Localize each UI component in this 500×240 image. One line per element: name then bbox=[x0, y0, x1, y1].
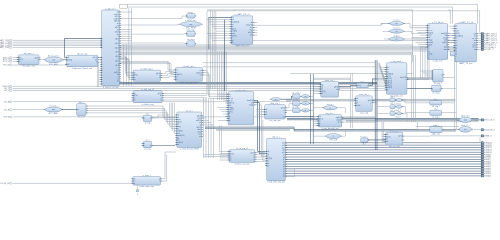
svg-text:PULSE_IN: PULSE_IN bbox=[0, 183, 10, 185]
svg-text:oe: oe bbox=[199, 136, 201, 138]
wire net o_out bbox=[370, 79, 433, 86]
wire fan e_left_more bbox=[170, 103, 176, 134]
svg-text:sel[2:0]: sel[2:0] bbox=[387, 87, 393, 89]
svg-text:cs: cs bbox=[117, 79, 119, 81]
port LED0 bbox=[481, 175, 491, 178]
svg-text:clk: clk bbox=[19, 57, 21, 59]
wire net m_f1 bbox=[254, 101, 266, 152]
wire net i_s2 bbox=[285, 104, 292, 108]
wire net a_b_join bbox=[448, 33, 454, 42]
svg-text:u: u bbox=[118, 50, 119, 52]
svg-text:ce: ce bbox=[386, 139, 388, 141]
wire net q_out bbox=[403, 135, 481, 137]
svg-text:e: e bbox=[161, 97, 162, 99]
svg-text:sh: sh bbox=[267, 163, 269, 165]
svg-text:u_UART_TX_ctl: u_UART_TX_ctl bbox=[458, 21, 473, 24]
svg-text:s1_reg_i: s1_reg_i bbox=[432, 117, 440, 119]
port BTN_D bbox=[3, 61, 12, 64]
svg-text:done: done bbox=[197, 129, 201, 131]
wire stubs g_rpins bbox=[253, 23, 258, 35]
wire net a2_out bbox=[442, 102, 455, 104]
module U1 uart_rx_top bbox=[100, 7, 121, 86]
wire net d_h_long bbox=[202, 63, 375, 67]
svg-text:d[1:0]: d[1:0] bbox=[356, 105, 360, 107]
module M2 shadow_reg bbox=[228, 148, 257, 166]
wire bus band_mid1 bbox=[120, 44, 456, 51]
module P scan_cnt bbox=[354, 93, 374, 114]
wire net ov_feed bbox=[382, 23, 390, 39]
wire vert q_feed bbox=[382, 122, 384, 142]
svg-text:dp: dp bbox=[319, 123, 321, 125]
port UART_DSR_O bbox=[481, 41, 498, 44]
svg-text:lt_cmp_i: lt_cmp_i bbox=[293, 98, 301, 101]
wire comb a_lpins bbox=[411, 26, 426, 48]
svg-text:mode[1:0]: mode[1:0] bbox=[177, 135, 184, 137]
wire loop f_feedback bbox=[285, 169, 294, 177]
wire net u1_g1 bbox=[120, 16, 187, 19]
svg-text:q7: q7 bbox=[283, 159, 285, 161]
wire bus band_mid2 dark bbox=[120, 82, 378, 84]
svg-text:en_i: en_i bbox=[146, 140, 150, 142]
svg-text:dn: dn bbox=[117, 81, 119, 83]
wire net ovi_out bbox=[281, 96, 293, 99]
port LED11 bbox=[481, 149, 492, 152]
wire net d3_u1 bbox=[98, 58, 102, 60]
svg-text:d: d bbox=[144, 143, 145, 145]
svg-text:tx_fifo_inst: tx_fifo_inst bbox=[433, 60, 443, 63]
svg-text:sel_or_i: sel_or_i bbox=[327, 104, 335, 106]
wire bus band3 bbox=[286, 99, 455, 101]
svg-text:we: we bbox=[387, 71, 389, 73]
wire net e_bot_m2 bbox=[204, 155, 230, 157]
wire vert ab_mid bbox=[455, 50, 457, 130]
wire net misc_73 bbox=[290, 73, 413, 75]
svg-text:scan_cnt_r: scan_cnt_r bbox=[359, 93, 369, 96]
svg-text:q2[7:0]: q2[7:0] bbox=[387, 83, 392, 85]
wire comb b_lpins bbox=[449, 26, 454, 43]
svg-text:clk: clk bbox=[265, 109, 267, 111]
svg-text:clk: clk bbox=[387, 67, 389, 69]
svg-text:led_reg_inst: led_reg_inst bbox=[389, 145, 400, 148]
module Q led_reg bbox=[384, 130, 404, 149]
svg-text:pwm_cnt_r: pwm_cnt_r bbox=[325, 79, 335, 82]
svg-text:clk: clk bbox=[456, 26, 458, 28]
svg-text:clk: clk bbox=[321, 84, 323, 86]
module G1 brg bbox=[186, 12, 197, 18]
port EN_B bbox=[4, 109, 12, 112]
svg-text:eq_cmp_i: eq_cmp_i bbox=[292, 92, 301, 94]
svg-text:SW_2: SW_2 bbox=[4, 90, 9, 92]
module D3 debounce bbox=[65, 53, 99, 70]
svg-text:busy: busy bbox=[177, 126, 180, 128]
module C2 rx_buf_reg bbox=[132, 89, 164, 106]
wire vert n_right bbox=[351, 74, 353, 129]
svg-text:inv: inv bbox=[396, 31, 398, 33]
svg-text:sh: sh bbox=[229, 116, 231, 118]
wire net h_out bbox=[407, 77, 455, 79]
port LED3 bbox=[481, 168, 491, 171]
svg-text:BTN_D: BTN_D bbox=[3, 61, 10, 63]
wire net l_up2 bbox=[161, 155, 167, 182]
wire comb v1_lpins bbox=[421, 71, 433, 79]
svg-text:ld: ld bbox=[428, 58, 429, 60]
wire net r1_a2 bbox=[402, 100, 430, 103]
port LED12 bbox=[481, 146, 492, 149]
svg-text:baud[15:0]: baud[15:0] bbox=[232, 22, 240, 24]
svg-text:inv: inv bbox=[396, 39, 398, 41]
svg-text:q13: q13 bbox=[282, 145, 285, 147]
port UART_RXD bbox=[0, 39, 12, 42]
svg-text:q11: q11 bbox=[282, 150, 285, 152]
svg-text:btn_sync_r: btn_sync_r bbox=[24, 52, 34, 55]
svg-text:d: d bbox=[134, 181, 135, 183]
svg-text:inv: inv bbox=[396, 23, 398, 25]
wire comb g_lpins bbox=[207, 20, 230, 41]
wire net ovl_t3 bbox=[62, 109, 75, 111]
svg-text:d[15:0]: d[15:0] bbox=[67, 59, 72, 61]
svg-text:t1_reg_i: t1_reg_i bbox=[433, 92, 441, 95]
svg-text:d[2:0]: d[2:0] bbox=[19, 59, 23, 61]
port LED6 bbox=[481, 161, 491, 164]
svg-text:v[3:0]: v[3:0] bbox=[115, 38, 119, 40]
wire fan h_lpins bbox=[377, 63, 387, 92]
svg-text:e: e bbox=[253, 159, 254, 161]
svg-text:q: q bbox=[159, 178, 160, 180]
wire bus band4b bbox=[346, 121, 479, 122]
svg-text:s1_r: s1_r bbox=[434, 109, 438, 111]
svg-text:done: done bbox=[472, 47, 476, 49]
wire net d2_d3 bbox=[62, 59, 66, 61]
svg-text:0: 0 bbox=[137, 194, 138, 196]
svg-text:u_cmd_Parse2_FSM: u_cmd_Parse2_FSM bbox=[180, 149, 199, 151]
module E cmd_fsm bbox=[175, 109, 203, 150]
svg-text:UART_TX_inst: UART_TX_inst bbox=[459, 62, 473, 65]
svg-text:eq: eq bbox=[305, 96, 307, 98]
wire net i_s3 bbox=[285, 109, 292, 111]
wire vert v1_feed bbox=[421, 47, 429, 80]
wire net clk_dark bbox=[65, 38, 102, 57]
label U1 below bbox=[103, 86, 119, 89]
svg-text:shadow_reg_inst: shadow_reg_inst bbox=[234, 163, 250, 166]
wire fan e_left_vert bbox=[86, 106, 175, 124]
port SW0 bbox=[3, 85, 13, 88]
module J seg_dec bbox=[317, 113, 344, 130]
wire net rom_to_A bbox=[253, 23, 390, 25]
module A3 s1_reg bbox=[430, 109, 442, 119]
svg-text:ce: ce bbox=[19, 61, 21, 63]
svg-text:en: en bbox=[319, 121, 321, 123]
svg-text:EN_B: EN_B bbox=[4, 109, 10, 111]
svg-text:ck: ck bbox=[456, 51, 458, 53]
wire net u1p_out bbox=[474, 119, 481, 121]
svg-text:sel[2:0]: sel[2:0] bbox=[196, 120, 202, 122]
svg-text:ld: ld bbox=[267, 161, 268, 163]
wire net r2_a3 bbox=[402, 107, 430, 113]
svg-text:d[15:0]: d[15:0] bbox=[267, 158, 272, 160]
port LED14 bbox=[481, 142, 492, 145]
svg-text:valid: valid bbox=[444, 40, 447, 42]
port BTN_C bbox=[3, 59, 12, 62]
svg-text:q5: q5 bbox=[283, 164, 285, 166]
svg-text:en: en bbox=[265, 114, 267, 116]
wire net j_out bbox=[342, 118, 376, 123]
svg-text:dv: dv bbox=[117, 23, 119, 25]
svg-text:en: en bbox=[177, 144, 179, 146]
gate OVI cnt_or bbox=[270, 98, 282, 101]
svg-text:scan_reg: scan_reg bbox=[360, 113, 368, 115]
port LED10 bbox=[481, 151, 492, 154]
svg-text:btn_sync_reg: btn_sync_reg bbox=[23, 65, 35, 68]
svg-text:o2_r: o2_r bbox=[390, 110, 394, 112]
svg-text:e: e bbox=[118, 67, 119, 69]
svg-text:q4: q4 bbox=[283, 166, 285, 168]
svg-text:g: g bbox=[118, 63, 119, 65]
port LED5 bbox=[481, 163, 491, 166]
svg-text:clk: clk bbox=[319, 116, 321, 118]
port LED13 bbox=[481, 144, 492, 147]
wire net i_dark_out bbox=[285, 116, 314, 118]
svg-text:t0_reg_i: t0_reg_i bbox=[434, 82, 442, 85]
wire net r3_out bbox=[402, 113, 407, 121]
svg-text:q: q bbox=[442, 74, 443, 76]
wire net rst_in bbox=[13, 63, 67, 66]
wire net ov_outs bbox=[404, 23, 427, 39]
wire net c1_out bbox=[161, 72, 174, 78]
gate OV4 sel_or bbox=[322, 104, 338, 110]
svg-text:rx_fifo_ctrl_r: rx_fifo_ctrl_r bbox=[235, 89, 246, 92]
svg-text:obuf_2: obuf_2 bbox=[395, 117, 401, 119]
wire net top2 bbox=[127, 7, 452, 24]
wire net m_f2 bbox=[254, 103, 266, 154]
svg-text:en: en bbox=[232, 26, 234, 28]
wire net u1_g3 bbox=[120, 33, 187, 35]
port UART_DTR_O bbox=[481, 39, 498, 42]
svg-text:ce: ce bbox=[134, 97, 136, 99]
wire vert f_left bbox=[263, 120, 266, 161]
svg-text:clk: clk bbox=[428, 25, 430, 27]
svg-text:STAT_O: STAT_O bbox=[485, 135, 492, 138]
port RST_N bbox=[3, 64, 12, 67]
svg-text:st_i: st_i bbox=[146, 113, 150, 116]
svg-text:u_UART_RX_ctl: u_UART_RX_ctl bbox=[235, 13, 250, 16]
svg-text:tx_st_i: tx_st_i bbox=[394, 19, 400, 22]
svg-text:d[7:0]: d[7:0] bbox=[177, 121, 181, 123]
svg-text:d: d bbox=[144, 118, 145, 120]
wire net ov4_out bbox=[339, 108, 345, 113]
svg-text:u_ROM_sel_i: u_ROM_sel_i bbox=[185, 20, 198, 22]
svg-text:clk: clk bbox=[134, 178, 136, 180]
module R1 obuf pair bbox=[390, 96, 403, 105]
svg-text:MODE: MODE bbox=[4, 117, 10, 119]
module SB sync_ff bbox=[360, 136, 385, 145]
svg-text:oddr_inst: oddr_inst bbox=[432, 133, 441, 136]
gate G2 RTL_ROM bbox=[179, 20, 203, 30]
port UART_RTS bbox=[0, 43, 12, 46]
svg-text:db_cnt_reg: db_cnt_reg bbox=[77, 53, 87, 56]
port LED9 bbox=[481, 154, 491, 157]
svg-text:q0: q0 bbox=[283, 176, 285, 178]
svg-text:cnt_reg_inst: cnt_reg_inst bbox=[270, 119, 281, 122]
module B uart_tx bbox=[453, 21, 478, 65]
module T2 en_buf bbox=[142, 140, 154, 151]
svg-text:obuf_clk_i: obuf_clk_i bbox=[461, 116, 471, 118]
svg-text:q[15:0]: q[15:0] bbox=[114, 21, 119, 23]
port PULSE_IN bbox=[0, 182, 12, 185]
svg-text:e: e bbox=[144, 145, 145, 147]
svg-text:q[7:0]: q[7:0] bbox=[250, 152, 254, 154]
svg-text:u_reg_bank_i: u_reg_bank_i bbox=[391, 61, 404, 63]
wire net en_b bbox=[13, 109, 44, 111]
module G3 smp_reg bbox=[186, 30, 197, 37]
wire comb u1_r1 bbox=[120, 12, 132, 45]
svg-text:q3[7:0]: q3[7:0] bbox=[387, 85, 392, 87]
svg-text:UART_DSR: UART_DSR bbox=[0, 46, 10, 49]
module W ab_join bbox=[450, 51, 455, 56]
svg-text:q[15:0]: q[15:0] bbox=[92, 57, 97, 59]
svg-text:en: en bbox=[321, 89, 323, 91]
svg-text:d[7:0]: d[7:0] bbox=[134, 95, 138, 97]
wire net d1_d2 bbox=[39, 59, 44, 61]
port LED1 bbox=[481, 172, 491, 175]
port EN_A bbox=[4, 101, 12, 104]
wire bus band4 dark bbox=[287, 119, 479, 120]
wire net c2_out bbox=[162, 93, 207, 100]
module T3 tmr bbox=[75, 101, 88, 119]
wire net u1_rom bbox=[120, 23, 181, 26]
svg-text:d[7:0]: d[7:0] bbox=[387, 76, 391, 78]
svg-text:ff_sync_i: ff_sync_i bbox=[360, 136, 368, 138]
svg-text:clk: clk bbox=[134, 93, 136, 95]
module R2 obuf pair bbox=[390, 103, 403, 112]
wire net g_bot_long bbox=[253, 36, 455, 41]
svg-text:en_and_i: en_and_i bbox=[49, 105, 58, 107]
port MODE bbox=[4, 116, 13, 119]
wire vert e_right cluster bbox=[204, 98, 214, 158]
svg-text:brg_i: brg_i bbox=[189, 12, 194, 14]
wire bus rxd_in bbox=[13, 40, 102, 47]
wire vert U1 right cluster bbox=[124, 8, 132, 86]
svg-text:u_uart_rx_ctl_top: u_uart_rx_ctl_top bbox=[103, 86, 119, 89]
svg-text:s0_r: s0_r bbox=[434, 99, 438, 101]
wire net m2_f bbox=[255, 153, 266, 162]
wire bus band_mid1b bbox=[120, 52, 413, 55]
port CLKOUT bbox=[481, 129, 495, 132]
port LED4 bbox=[481, 165, 491, 168]
svg-text:and: and bbox=[52, 59, 55, 61]
svg-text:q6: q6 bbox=[283, 161, 285, 163]
wire vert bundle_corner bbox=[479, 137, 481, 143]
wire net m_f3 bbox=[254, 105, 266, 156]
svg-text:q9: q9 bbox=[283, 154, 285, 156]
svg-text:RTL_OR: RTL_OR bbox=[329, 140, 337, 142]
wire loop U1 top box bbox=[120, 4, 128, 8]
svg-text:baud[15:0]: baud[15:0] bbox=[456, 35, 464, 37]
svg-text:obuf_c1_i: obuf_c1_i bbox=[461, 125, 470, 127]
wire net t1_e bbox=[152, 117, 176, 119]
module H reg_bank bbox=[385, 61, 409, 97]
svg-text:cfg[15:0]: cfg[15:0] bbox=[176, 74, 183, 76]
module N pwm_cnt bbox=[319, 79, 340, 97]
svg-text:clk: clk bbox=[230, 151, 232, 153]
svg-text:ctrl_st_r: ctrl_st_r bbox=[186, 109, 193, 112]
svg-text:q8: q8 bbox=[283, 157, 285, 159]
svg-text:dv: dv bbox=[177, 124, 179, 126]
svg-text:RTL_AND: RTL_AND bbox=[49, 112, 59, 115]
port UART_RTS_O bbox=[481, 35, 497, 38]
svg-text:sh_ld_reg_r1: sh_ld_reg_r1 bbox=[236, 148, 249, 150]
module G uart_rx bbox=[230, 13, 255, 47]
module G4 sh_reg bbox=[186, 39, 197, 46]
svg-text:busy: busy bbox=[444, 47, 447, 49]
module R3 obuf pair bbox=[390, 110, 403, 119]
svg-text:clk: clk bbox=[356, 98, 358, 100]
wire net pulse_in bbox=[13, 182, 133, 184]
wire vert h_right bbox=[411, 55, 415, 122]
svg-text:f[7:0]: f[7:0] bbox=[115, 65, 119, 67]
svg-text:d[7:0]: d[7:0] bbox=[456, 33, 460, 35]
svg-text:db_en_and_i: db_en_and_i bbox=[48, 55, 60, 57]
svg-text:q[2:0]: q[2:0] bbox=[35, 58, 39, 60]
svg-text:d[7:0]: d[7:0] bbox=[115, 27, 119, 29]
svg-text:TX_BIT_O: TX_BIT_O bbox=[485, 49, 494, 51]
svg-text:d[7:0]: d[7:0] bbox=[134, 75, 138, 77]
svg-text:led_sr_r: led_sr_r bbox=[272, 137, 280, 139]
wire net top3 bbox=[207, 10, 450, 62]
svg-text:Debounce_Reset_inst: Debounce_Reset_inst bbox=[72, 67, 92, 70]
port LED7 bbox=[481, 158, 491, 161]
svg-text:busy: busy bbox=[198, 131, 201, 133]
wire fan e_left_vert2 bbox=[152, 115, 170, 118]
port STAT bbox=[481, 135, 492, 138]
wire net e_out bbox=[202, 116, 214, 125]
svg-text:smp: smp bbox=[232, 33, 235, 35]
svg-text:ld[7:0]: ld[7:0] bbox=[197, 127, 202, 129]
svg-text:d[7:0]: d[7:0] bbox=[232, 28, 236, 30]
port LED2 bbox=[481, 170, 491, 173]
port UART_DSR bbox=[0, 46, 12, 49]
svg-text:gt_cmp_i: gt_cmp_i bbox=[292, 105, 301, 108]
wire net u2p_feed bbox=[416, 122, 460, 130]
svg-text:seg[6:0]: seg[6:0] bbox=[336, 117, 342, 119]
wire net s_outs bbox=[309, 96, 313, 110]
wire net dark_clk_g bbox=[120, 48, 209, 50]
module L pulse_sync bbox=[131, 175, 162, 188]
svg-text:d[3:0]: d[3:0] bbox=[319, 118, 323, 120]
module S2 lt_pair bbox=[293, 98, 311, 105]
svg-text:clk: clk bbox=[176, 70, 178, 72]
wire net j_in bbox=[313, 117, 318, 126]
svg-text:q3: q3 bbox=[283, 169, 285, 171]
svg-text:RST_N: RST_N bbox=[3, 65, 10, 67]
svg-text:d: d bbox=[432, 88, 433, 90]
port TX_BIT_O bbox=[481, 48, 494, 51]
svg-text:ff_r: ff_r bbox=[363, 143, 366, 145]
wire net ov4_in bbox=[313, 107, 323, 109]
svg-text:st_reg: st_reg bbox=[145, 122, 151, 125]
svg-text:dv: dv bbox=[251, 22, 253, 24]
svg-text:PX_CLK_O: PX_CLK_O bbox=[485, 120, 495, 122]
port PX_CLK bbox=[481, 119, 495, 122]
svg-text:q1[7:0]: q1[7:0] bbox=[387, 80, 392, 82]
svg-text:led_out_r: led_out_r bbox=[390, 130, 399, 133]
wire junc U1 left pair bbox=[97, 62, 102, 87]
svg-text:clk: clk bbox=[232, 17, 234, 19]
module A2 s0_reg bbox=[430, 99, 442, 108]
svg-text:pulse_sync_reg: pulse_sync_reg bbox=[140, 186, 154, 188]
wire net dark_g2 bbox=[224, 20, 226, 91]
svg-text:clk: clk bbox=[134, 73, 136, 75]
wire vert h_dark pair bbox=[375, 60, 377, 150]
